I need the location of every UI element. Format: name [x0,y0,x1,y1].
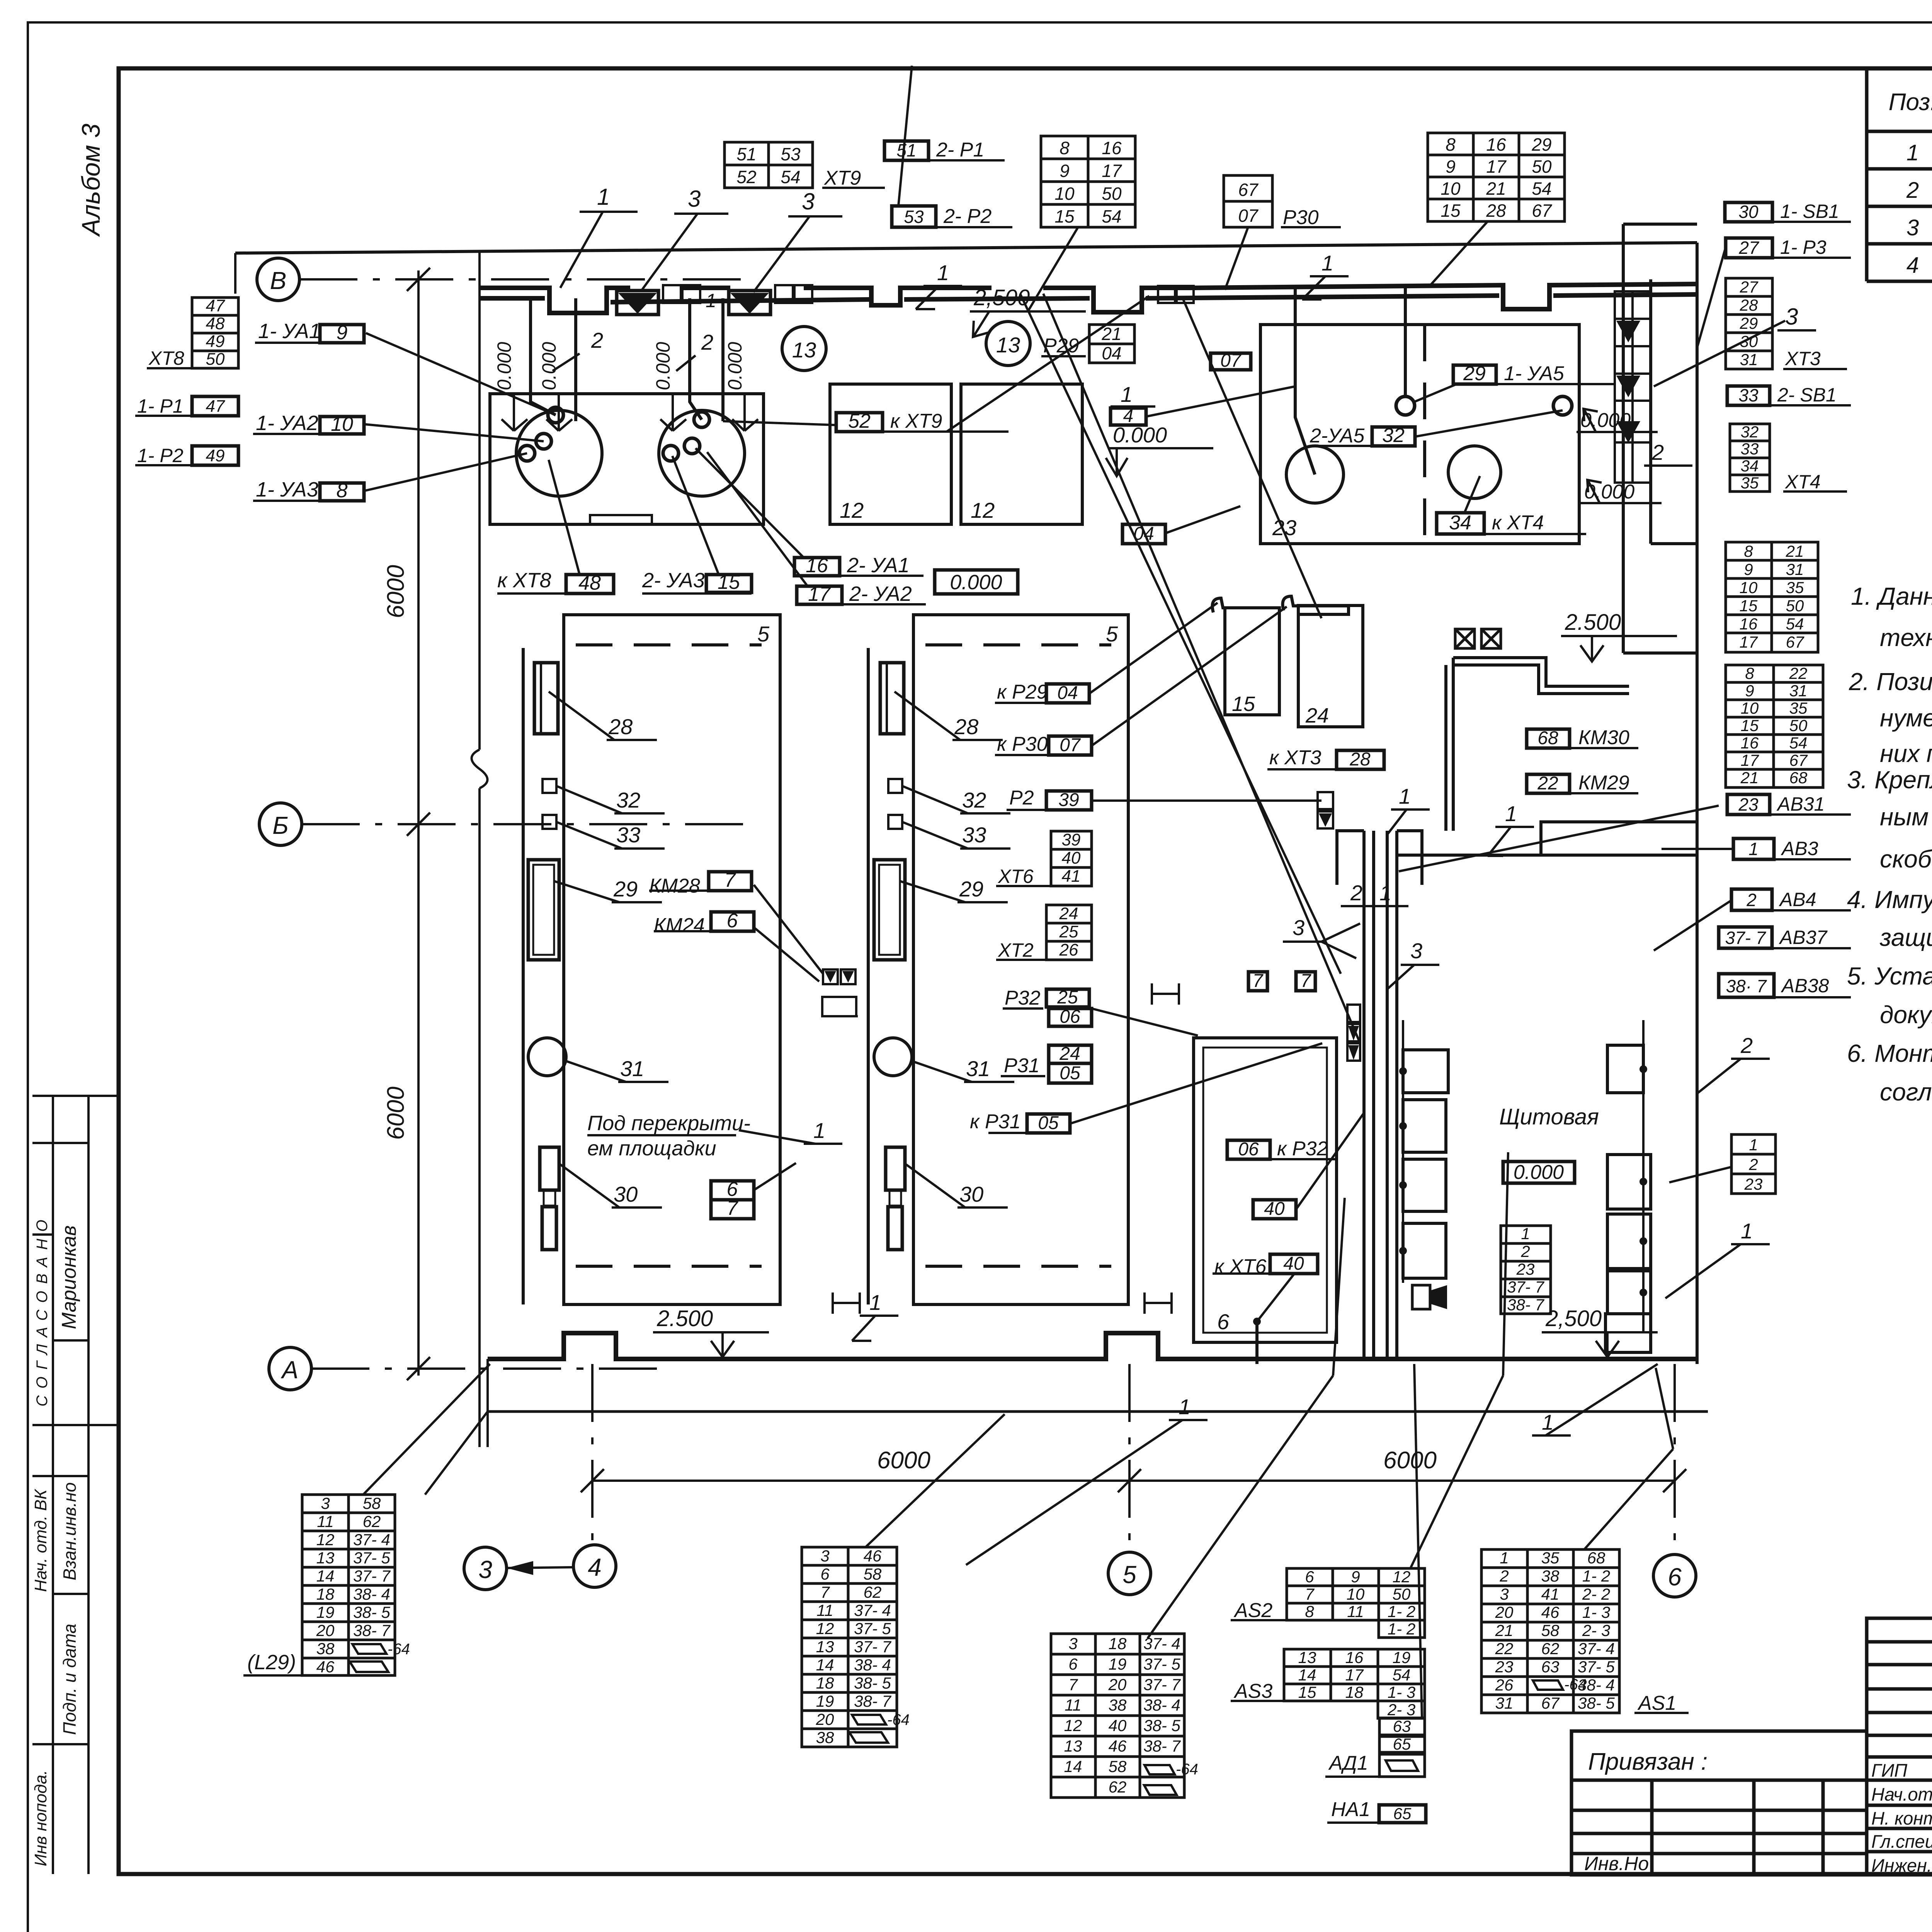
arrow 4 to 3 [507,1567,573,1568]
51 2-Р1 [884,141,929,160]
svg-text:47: 47 [206,296,225,315]
central corridor walls [1337,831,1422,1359]
svg-text:Привязан :: Привязан : [1588,1748,1708,1775]
svg-text:них проводок( листы 18...27): них проводок( листы 18...27). [1880,740,1932,767]
svg-text:31: 31 [1740,350,1758,369]
svg-text:ным конструкциям, выполнить: ным конструкциям, выполнить монтажными п… [1880,803,1932,831]
svg-text:НА1: НА1 [1331,1798,1370,1821]
13 circles [782,327,826,371]
svg-text:04: 04 [1057,683,1078,703]
svg-text:15: 15 [1054,206,1075,226]
svg-text:6000: 6000 [383,1087,409,1140]
svg-text:04: 04 [1102,343,1121,363]
svg-text:4: 4 [1906,253,1919,278]
svg-text:15: 15 [1741,716,1759,735]
svg-text:34: 34 [1449,512,1471,534]
svg-text:50: 50 [1786,597,1804,615]
svg-text:51: 51 [896,140,916,160]
svg-text:Нач.отд.: Нач.отд. [1871,1784,1932,1804]
svg-text:5. Установка и привязка с: 5. Установка и привязка силового электро… [1847,962,1932,990]
svg-text:Инв нопода.: Инв нопода. [31,1770,50,1866]
hall B equipment [880,663,904,734]
svg-text:54: 54 [1102,206,1121,226]
svg-text:3: 3 [1068,1634,1077,1653]
svg-text:23: 23 [1495,1658,1514,1676]
svg-text:3: 3 [820,1547,829,1565]
16 2-УА1 label [794,558,840,576]
svg-text:2-УА5: 2-УА5 [1310,425,1365,447]
svg-text:АS2: АS2 [1233,1599,1272,1622]
long diagonal leaders from top wall to corridor [947,294,1360,1043]
КМ30 КМ29 labels [1527,729,1570,748]
svg-text:31: 31 [1495,1694,1514,1712]
svg-text:12: 12 [816,1619,834,1638]
svg-text:29: 29 [959,877,983,901]
svg-text:15: 15 [1298,1683,1316,1701]
svg-text:13: 13 [1298,1648,1316,1667]
svg-text:10: 10 [1347,1585,1365,1603]
svg-text:53: 53 [904,207,924,227]
svg-text:1: 1 [1521,1225,1530,1243]
tank circle 1 [516,410,602,496]
2-col table 8/22 (7 rows) [1726,665,1823,787]
svg-text:67: 67 [1532,201,1552,221]
svg-text:38- 4: 38- 4 [854,1656,891,1674]
Щитовая room walls [1397,822,1697,855]
svg-text:07: 07 [1060,735,1081,755]
svg-text:13: 13 [792,338,816,362]
svg-text:33: 33 [1738,385,1759,405]
svg-text:54: 54 [1786,615,1804,633]
svg-text:38- 5: 38- 5 [1578,1694,1615,1712]
svg-text:8: 8 [1446,134,1456,155]
svg-text:2- УА2: 2- УА2 [849,582,912,605]
svg-text:0.000: 0.000 [1580,409,1631,432]
svg-text:АS1: АS1 [1637,1692,1676,1714]
label 52 к ХТ9 [836,413,883,432]
svg-text:8: 8 [1744,542,1753,560]
2 АВ4 [1731,889,1772,910]
svg-text:46: 46 [316,1658,335,1676]
svg-text:1- Р2: 1- Р2 [137,445,184,466]
bottom-left big table [1051,1634,1184,1798]
svg-text:9: 9 [1060,161,1070,181]
long leader AB31 [1399,806,1719,871]
connector pair bottom of hall A [823,969,838,984]
06 к Р32 [1227,1140,1270,1159]
svg-text:68: 68 [1789,769,1808,787]
svg-text:54: 54 [1789,734,1808,752]
svg-text:26: 26 [1059,940,1078,959]
svg-text:1- 3: 1- 3 [1582,1603,1610,1621]
svg-text:АВ4: АВ4 [1779,889,1816,910]
right cabinets column [1605,1045,1651,1352]
svg-text:к ХТ9: к ХТ9 [890,410,942,432]
67/07 Р30 [1224,175,1272,227]
svg-text:9: 9 [1744,560,1753,578]
axis circle B [257,258,299,301]
svg-text:к Р29: к Р29 [997,681,1048,703]
tank circle 2 [659,410,745,496]
svg-text:58: 58 [1541,1621,1560,1639]
svg-text:20: 20 [1495,1603,1514,1621]
svg-text:5: 5 [1122,1561,1136,1588]
svg-text:16: 16 [1740,615,1758,633]
svg-text:10: 10 [331,413,353,435]
top-right materials table [1867,68,1932,281]
svg-text:скобами с шагом, не более: скобами с шагом, не более 800 мм . [1880,845,1932,873]
svg-text:к ХТ3: к ХТ3 [1269,747,1321,769]
svg-text:2- УА3: 2- УА3 [642,569,705,592]
svg-text:1: 1 [1748,839,1759,859]
svg-text:12: 12 [316,1531,335,1549]
svg-text:Р30: Р30 [1283,206,1319,229]
top wall (row B) [480,284,1697,313]
svg-text:37- 4: 37- 4 [1578,1639,1615,1658]
svg-text:0.000: 0.000 [493,342,515,390]
svg-text:1: 1 [1505,801,1517,826]
svg-text:14: 14 [1298,1666,1316,1684]
svg-text:14: 14 [316,1567,335,1585]
svg-text:3. Крепление кабелей и тру: 3. Крепление кабелей и труб, прокладывае… [1847,766,1932,794]
svg-text:38- 5: 38- 5 [353,1603,390,1621]
svg-text:17: 17 [808,583,831,605]
svg-text:30: 30 [959,1182,983,1206]
hall A equipment [534,663,558,734]
svg-text:АS3: АS3 [1233,1680,1272,1702]
svg-text:Инжен.: Инжен. [1871,1855,1932,1876]
svg-text:10: 10 [1740,578,1758,597]
svg-text:63: 63 [1541,1658,1560,1676]
svg-text:7: 7 [727,1197,739,1219]
svg-text:11: 11 [816,1601,833,1619]
XT2 table [1046,905,1092,960]
axis line A [311,1367,657,1370]
svg-text:17: 17 [1102,161,1122,181]
svg-text:2: 2 [1748,1155,1758,1173]
H symbols [833,983,1179,1314]
leaders from wall to labels [1697,247,1726,348]
svg-text:24: 24 [1305,704,1329,727]
svg-text:49: 49 [206,332,225,351]
bottom mid-left table [802,1547,897,1747]
svg-text:1- 2: 1- 2 [1388,1620,1415,1638]
svg-text:5: 5 [757,622,770,646]
svg-text:29: 29 [1463,362,1486,385]
svg-text:ХТ6: ХТ6 [998,866,1034,887]
svg-text:2.500: 2.500 [656,1306,713,1331]
box 07 floating [1211,353,1251,370]
svg-text:1: 1 [1749,1136,1758,1154]
svg-text:31: 31 [1789,682,1808,700]
svg-text:35: 35 [1741,474,1759,492]
small fixture boxes on top wall [663,285,1194,303]
svg-text:6: 6 [727,910,738,932]
svg-text:62: 62 [1541,1639,1560,1658]
svg-text:2. Позиции монтируемых при: 2. Позиции монтируемых приборов и аппара… [1849,668,1932,696]
svg-text:7: 7 [1068,1675,1078,1694]
svg-text:16: 16 [1345,1648,1364,1667]
svg-text:35: 35 [1541,1549,1560,1567]
svg-text:11: 11 [1347,1602,1364,1621]
svg-text:АВ38: АВ38 [1781,975,1829,997]
svg-text:17: 17 [1740,633,1758,651]
svg-text:Под перекрыти-: Под перекрыти- [587,1112,750,1135]
svg-text:СОГЛАСОВАНО: СОГЛАСОВАНО [34,1213,51,1406]
svg-text:25: 25 [1059,922,1078,941]
svg-text:29: 29 [613,877,638,901]
hatched fixture column on stair wall [1615,291,1651,401]
vertical leader to АД1 [1414,1364,1422,1718]
bottom wall (row A) [488,1333,1697,1359]
svg-text:13: 13 [1064,1737,1082,1755]
svg-text:3: 3 [1293,915,1304,940]
axis circle 6 [1653,1554,1696,1597]
elevation marks 0.000 at tanks [493,342,746,390]
svg-text:20: 20 [316,1621,335,1639]
svg-text:к Р31: к Р31 [970,1111,1021,1133]
svg-text:2- 3: 2- 3 [1387,1701,1415,1719]
rooms 15 and 24 [1225,608,1279,715]
svg-text:9: 9 [1351,1568,1360,1586]
axis line Б [302,823,753,825]
svg-text:1- УА1: 1- УА1 [258,320,321,343]
svg-text:7: 7 [724,869,736,891]
axis circle 5 [1108,1552,1151,1595]
svg-text:к ХТ4: к ХТ4 [1492,512,1544,534]
svg-text:33: 33 [962,823,986,847]
svg-text:5: 5 [1106,622,1118,646]
svg-text:38- 7: 38- 7 [854,1692,891,1710]
svg-text:2- 3: 2- 3 [1582,1621,1610,1639]
svg-text:1- Р3: 1- Р3 [1780,236,1827,258]
axis circle Б [259,803,302,845]
svg-text:к Р32: к Р32 [1277,1138,1328,1160]
svg-text:7: 7 [820,1583,830,1601]
leader from table left bottom up [1148,1376,1333,1638]
svg-text:10: 10 [1440,179,1461,199]
svg-text:33: 33 [1741,440,1759,458]
horizontal dimension 6000 (5-6) [1129,1480,1675,1482]
svg-text:51: 51 [736,144,756,164]
svg-text:АВ31: АВ31 [1776,793,1825,815]
top row tables: XT9 [724,142,813,188]
svg-text:к ХТ8: к ХТ8 [497,569,551,592]
svg-text:нумерация кабелей и труб с: нумерация кабелей и труб соответствуют с… [1880,704,1932,732]
svg-text:ХТ8: ХТ8 [148,347,184,369]
svg-text:15: 15 [1232,692,1255,716]
svg-text:2: 2 [1740,1033,1753,1058]
svg-text:28: 28 [608,714,633,739]
svg-text:28: 28 [1486,201,1506,221]
53 2-Р2 [892,206,936,227]
2x4 table 8/16 [1041,136,1135,227]
table 27..31 XT3 [1726,278,1772,369]
svg-text:19: 19 [1109,1655,1127,1673]
svg-text:КМ29: КМ29 [1578,772,1629,794]
svg-text:2- Р2: 2- Р2 [943,205,992,228]
svg-text:1: 1 [1741,1219,1753,1243]
svg-text:21: 21 [1786,542,1804,560]
svg-text:2: 2 [1746,890,1757,910]
svg-text:37- 7: 37- 7 [353,1567,391,1585]
svg-text:4: 4 [1123,406,1134,426]
svg-text:23: 23 [1744,1175,1763,1193]
svg-text:ГИП: ГИП [1871,1760,1908,1781]
27 1-Р3 [1726,238,1772,258]
svg-text:6: 6 [820,1565,830,1583]
33 2-SB1 [1727,386,1770,405]
svg-text:3: 3 [1410,939,1422,963]
svg-text:32: 32 [616,788,640,812]
svg-text:КМ28: КМ28 [649,875,700,897]
svg-text:62: 62 [1109,1778,1127,1796]
svg-text:07: 07 [1220,350,1242,371]
svg-text:65: 65 [1393,1735,1411,1753]
box 04 floating [1122,524,1165,544]
svg-text:ем площадки: ем площадки [587,1137,716,1160]
svg-text:6: 6 [1217,1310,1230,1334]
svg-text:9: 9 [337,321,348,344]
svg-text:1: 1 [706,290,716,311]
svg-text:50: 50 [206,350,225,369]
cable drops room 23 [1295,288,1405,474]
svg-text:Нач. отд. ВК: Нач. отд. ВК [31,1489,50,1592]
svg-text:6000: 6000 [1383,1447,1437,1474]
svg-text:37- 4: 37- 4 [353,1531,390,1549]
svg-text:50: 50 [1102,184,1122,204]
svg-text:(L29): (L29) [247,1651,296,1674]
svg-text:18: 18 [1109,1634,1127,1653]
svg-text:16: 16 [1741,734,1759,752]
svg-text:согласно СНиП3.05. 07. 85 .: согласно СНиП3.05. 07. 85 . [1880,1078,1932,1106]
svg-text:27: 27 [1740,278,1759,296]
svg-text:52: 52 [736,167,756,187]
svg-text:06: 06 [1060,1007,1080,1027]
svg-text:ХТ4: ХТ4 [1785,471,1821,493]
svg-text:АВ3: АВ3 [1781,838,1818,859]
svg-text:В: В [270,267,287,294]
title block: Привязан box [1571,1731,1867,1875]
table 1,2,23,37-7,38-7 [1501,1226,1551,1314]
svg-text:38- 5: 38- 5 [854,1674,891,1692]
svg-text:0.000: 0.000 [1514,1161,1564,1184]
svg-text:21: 21 [1486,179,1506,199]
hall A (left) [564,615,780,1304]
svg-text:28: 28 [1349,749,1371,770]
axis circle A [269,1347,311,1390]
svg-text:37- 7: 37- 7 [1725,928,1766,948]
svg-text:06: 06 [1238,1139,1259,1160]
svg-text:8: 8 [1745,664,1754,682]
svg-text:19: 19 [316,1603,335,1621]
svg-text:1: 1 [1179,1395,1190,1419]
40 box [1253,1200,1296,1219]
connector black stack [1347,1005,1360,1061]
svg-text:14: 14 [816,1656,834,1674]
svg-text:2- SВ1: 2- SВ1 [1777,384,1837,406]
svg-text:13: 13 [316,1549,335,1567]
svg-text:28: 28 [1740,296,1758,314]
svg-text:15: 15 [718,571,740,594]
svg-text:6. Монтаж приборов и средс: 6. Монтаж приборов и средств автоматизац… [1847,1039,1932,1067]
svg-text:39: 39 [1058,790,1079,810]
svg-text:23: 23 [1516,1260,1535,1278]
boxes 7 7 near corridor [1248,972,1267,991]
svg-text:2- Р1: 2- Р1 [936,139,984,161]
svg-text:1: 1 [1379,881,1391,905]
svg-text:ХТ2: ХТ2 [998,939,1034,961]
svg-text:38: 38 [1541,1567,1560,1585]
svg-text:54: 54 [781,167,800,187]
svg-text:50: 50 [1393,1585,1411,1603]
svg-text:41: 41 [1541,1585,1560,1603]
svg-text:38- 7: 38- 7 [1143,1737,1181,1755]
svg-text:48: 48 [578,572,601,594]
svg-text:27: 27 [1738,238,1759,258]
svg-text:15: 15 [1440,201,1461,221]
svg-text:20: 20 [1108,1675,1127,1694]
svg-text:КМ24: КМ24 [654,914,705,937]
svg-text:Р29: Р29 [1043,335,1079,357]
svg-text:1: 1 [869,1290,881,1315]
1 АВ3 [1733,838,1774,859]
svg-text:41: 41 [1062,867,1081,886]
svg-text:19: 19 [1393,1648,1411,1667]
svg-text:Поз.: Поз. [1889,89,1932,116]
svg-text:29: 29 [1740,314,1758,332]
upper corridor / ramp walls [1446,658,1629,831]
svg-text:67: 67 [1786,633,1804,651]
svg-text:37- 5: 37- 5 [854,1619,891,1638]
svg-text:28: 28 [954,714,978,739]
svg-text:18: 18 [816,1674,834,1692]
svg-text:58: 58 [1109,1757,1127,1776]
cabinets along corridor (left column) [1403,1050,1448,1278]
svg-text:58: 58 [363,1494,381,1512]
svg-text:1- SВ1: 1- SВ1 [1780,201,1839,222]
svg-text:10: 10 [1054,184,1075,204]
svg-text:29: 29 [1531,134,1551,155]
svg-text:05: 05 [1038,1113,1059,1133]
svg-text:07: 07 [1238,206,1259,226]
svg-text:1: 1 [937,260,949,285]
svg-text:-64: -64 [1564,1676,1587,1693]
svg-text:1- Р1: 1- Р1 [137,395,184,417]
svg-text:2: 2 [1906,178,1919,203]
svg-text:38- 7: 38- 7 [1507,1296,1544,1314]
svg-text:1: 1 [1906,140,1919,165]
svg-text:40: 40 [1109,1716,1127,1735]
XT6 table [1051,831,1092,886]
svg-text:6000: 6000 [383,565,409,618]
svg-text:Р2: Р2 [1009,787,1034,809]
building top outer line [235,243,1697,253]
svg-text:38: 38 [316,1639,335,1658]
svg-text:25: 25 [1057,987,1078,1008]
svg-text:47: 47 [206,397,225,416]
left margin table XT8 [192,298,238,368]
svg-text:Р32: Р32 [1005,987,1041,1009]
table 32..35 XT4 [1730,424,1770,492]
svg-text:22: 22 [1495,1639,1514,1658]
svg-text:3: 3 [1906,215,1919,240]
svg-text:2- УА1: 2- УА1 [847,554,910,577]
boxes 6/7 stacked in hall A area [711,1181,754,1200]
axis 4 vertical dash-dot [591,1364,594,1545]
svg-text:21: 21 [1495,1621,1514,1639]
svg-text:1: 1 [1121,382,1133,406]
